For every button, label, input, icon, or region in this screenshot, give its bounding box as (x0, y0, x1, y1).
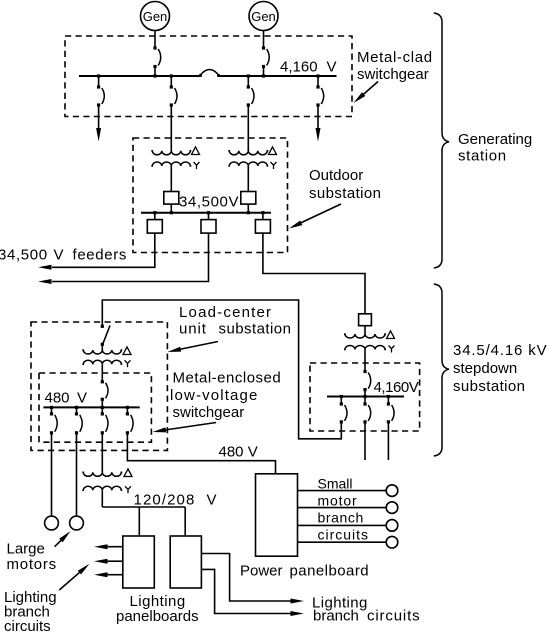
bus 4160V left segment (79, 75, 201, 77)
lighting branch arrow 2 left (94, 559, 123, 564)
transformer T5 wye symbol (125, 486, 131, 493)
incoming breaker stepdown (363, 370, 370, 397)
wire bus to S4 (208, 213, 210, 220)
label Small motor branch circuits (318, 476, 370, 543)
label Metal-enclosed low-voltage switchgear (170, 370, 281, 422)
svg-text:4,160V: 4,160V (374, 379, 419, 396)
480V feeder breaker F4 (126, 407, 133, 434)
wire bus to S3 (154, 213, 156, 220)
transformer T4 delta symbol (123, 347, 131, 355)
feeder 1 arrow (38, 265, 52, 270)
junction dots stepdown bus (340, 395, 390, 398)
brace generating station (434, 13, 449, 268)
bus 480V (43, 406, 139, 408)
small motor circuit 3 (298, 520, 398, 532)
breaker 52-G1 (153, 46, 160, 76)
svg-text:Generating: Generating (458, 131, 532, 148)
callout arrow to outdoor substation (289, 204, 341, 229)
lighting panelboard 1 (123, 536, 155, 588)
wire F4 to power panelboard (480V) (127, 434, 275, 474)
label 480 V switchgear (45, 390, 88, 407)
wire F3 to transformer T5 (101, 434, 103, 472)
small motor circuit 2 (298, 502, 398, 514)
label 4,160 V (280, 59, 337, 76)
brace stepdown substation (434, 284, 449, 456)
wire F2 to motor M2 (76, 434, 78, 516)
svg-text:panelboard: panelboard (290, 563, 370, 580)
svg-text:Small: Small (318, 476, 353, 492)
svg-text:34.5/4.16 kV: 34.5/4.16 kV (453, 342, 547, 359)
label 120/208 V (134, 492, 217, 509)
wire S6 to transformer T3 (364, 326, 366, 334)
lighting panelboard 2 (170, 536, 201, 588)
svg-text:120/208: 120/208 (134, 492, 196, 509)
svg-text:Gen: Gen (143, 9, 168, 24)
bus 120/208V (102, 506, 185, 508)
transformer T5 primary (82, 472, 122, 476)
transformer T2 delta symbol (269, 147, 277, 155)
svg-text:34,500V: 34,500V (179, 194, 239, 211)
svg-text:switchgear: switchgear (357, 66, 429, 83)
transformer T2 secondary (228, 162, 268, 166)
svg-text:Power: Power (240, 563, 283, 580)
svg-text:V: V (77, 390, 87, 407)
svg-text:substation: substation (309, 185, 381, 202)
label 34.5/4.16 kV stepdown substation (453, 342, 547, 395)
wire T5 to 120/208 bus (101, 490, 103, 507)
callout arrow to metal-enclosed switchgear (153, 423, 217, 433)
480V feeder breaker F3 (101, 407, 108, 434)
svg-text:Load-center: Load-center (179, 304, 272, 321)
transformer T1 delta symbol (192, 147, 200, 155)
motor M2 circle (70, 516, 84, 530)
breaker square S3 (147, 220, 162, 234)
svg-text:motor: motor (318, 493, 358, 509)
wire B to transformer T1 (170, 106, 172, 151)
junction dots on 34500 bus (153, 211, 264, 214)
generator G1 (141, 2, 170, 31)
junction dots on 4160V bus (97, 74, 320, 77)
svg-text:34,500: 34,500 (0, 247, 48, 264)
lighting branch out arrow B (291, 611, 305, 616)
svg-text:branch: branch (318, 510, 364, 526)
transformer T2 wye symbol (271, 162, 277, 169)
transformer T3 wye symbol (389, 346, 395, 353)
transformer T4 wye symbol (125, 360, 131, 367)
transformer T3 delta symbol (387, 331, 395, 339)
power panelboard box (256, 474, 298, 556)
wire T1 to breaker square S1 (170, 166, 172, 192)
svg-text:Gen: Gen (251, 9, 276, 24)
label Lighting branch circuits right (312, 595, 420, 625)
breaker square S2 (241, 192, 256, 205)
svg-text:branch: branch (313, 608, 359, 625)
feeder breaker M (363, 397, 370, 424)
breaker square S4 (201, 220, 216, 234)
callout arrow to metal-clad switchgear (354, 82, 379, 104)
svg-text:panelboards: panelboards (116, 608, 199, 625)
bus 4,160V stepdown (327, 396, 404, 398)
svg-text:motors: motors (7, 556, 57, 573)
feeder 1 wire (S3 down-left) (52, 233, 155, 267)
feeder breaker D (316, 76, 323, 107)
fused switch square S6 (359, 314, 372, 326)
svg-text:substation: substation (453, 378, 525, 395)
svg-text:low-voltage: low-voltage (170, 387, 259, 404)
svg-text:Metal-enclosed: Metal-enclosed (173, 370, 282, 387)
feeder breaker L (340, 397, 347, 424)
feeder 2 wire (S4 down-left) (52, 233, 209, 281)
svg-text:unit: unit (179, 321, 207, 338)
bus 4160V right segment (219, 75, 337, 77)
wire T3 to incoming breaker (364, 350, 366, 372)
wire bus to S5 (262, 213, 264, 220)
wire feeder L to load-center (long route) (102, 300, 341, 439)
outdoor substation enclosure (dashed) (133, 138, 288, 253)
label 34,500 V feeders (0, 247, 127, 264)
svg-text:substation: substation (219, 321, 292, 338)
bus 34,500V (141, 212, 271, 214)
small motor circuit 1 (298, 485, 398, 497)
transformer T1 secondary (151, 162, 191, 166)
callout arrow to load-center (168, 342, 219, 353)
label Large motors (7, 541, 57, 574)
main breaker 480V (101, 380, 108, 407)
feeder 2 arrow (38, 279, 52, 284)
wire F1 to motor M1 (51, 434, 53, 516)
load-center enclosure (dashed) (31, 322, 167, 450)
svg-text:Large: Large (7, 541, 45, 558)
bus tie (normally open jumper) (199, 70, 220, 77)
wire T4 to main breaker (101, 364, 103, 381)
feeder breaker N (387, 397, 394, 424)
label Power panelboard (240, 563, 369, 580)
wire Gen1 to breaker (154, 31, 156, 48)
feeder 3 wire (S5 to stepdown substation) (263, 233, 365, 314)
transformer T4 primary (82, 350, 122, 354)
svg-text:circuits: circuits (318, 527, 370, 543)
lighting branch out arrow A (291, 599, 305, 604)
small motor circuit 4 (298, 536, 398, 548)
svg-text:station: station (458, 148, 507, 165)
feeder breaker C (247, 76, 254, 107)
lighting branch arrow 3 left (94, 572, 123, 577)
wire Gen2 to breaker (263, 31, 265, 48)
breaker 52-G2 (262, 46, 269, 76)
breaker square S1 (164, 192, 179, 205)
svg-text:circuits: circuits (367, 608, 420, 625)
label Outdoor substation (309, 167, 381, 202)
svg-text:Outdoor: Outdoor (309, 167, 363, 184)
feeder D arrow down (316, 106, 321, 142)
wire S2 to 34500 bus (247, 204, 249, 213)
wire T2 to breaker square S2 (247, 166, 249, 192)
svg-text:4,160: 4,160 (280, 59, 318, 76)
callout arrow to large motors (55, 531, 71, 547)
transformer T4 secondary (82, 360, 122, 364)
svg-text:480 V: 480 V (219, 444, 258, 461)
480V feeder breaker F1 (50, 407, 57, 434)
callout arrow to lighting branch left (59, 564, 89, 590)
svg-text:feeders: feeders (73, 247, 128, 264)
wire feeder N down (387, 423, 389, 460)
stepdown unit enclosure (dashed) (310, 363, 420, 431)
480V feeder breaker F2 (75, 407, 82, 434)
transformer T3 primary (344, 334, 386, 338)
lighting branch out wire B (201, 569, 291, 613)
junction dots 480V bus (50, 406, 129, 409)
metal-enclosed switchgear enclosure (dashed) (39, 373, 151, 442)
wire feeder M down (364, 423, 366, 460)
svg-text:V: V (54, 247, 64, 264)
transformer T3 secondary (344, 346, 386, 350)
svg-text:stepdown: stepdown (453, 360, 517, 377)
svg-text:V: V (327, 59, 337, 76)
svg-text:circuits: circuits (4, 618, 51, 632)
disconnect switch load-center (101, 325, 110, 350)
transformer T5 secondary (82, 486, 122, 490)
label Metal-clad switchgear (357, 49, 433, 83)
label Lighting panelboards (116, 593, 199, 625)
wire C to transformer T2 (247, 106, 249, 151)
svg-text:480: 480 (45, 390, 70, 407)
svg-text:V: V (207, 492, 217, 509)
label Generating station (458, 131, 532, 165)
transformer T1 wye symbol (194, 162, 200, 169)
label Lighting branch circuits left (4, 589, 57, 632)
metal-clad switchgear enclosure (dashed) (65, 36, 352, 117)
svg-text:Metal-clad: Metal-clad (357, 49, 433, 66)
lighting branch out wire A (201, 554, 291, 602)
lighting branch arrow 1 left (94, 544, 123, 549)
generator G2 (249, 2, 278, 31)
wire S1 to 34500 bus (170, 204, 172, 213)
label Load-center unit substation (179, 304, 291, 338)
transformer T1 primary (151, 151, 191, 155)
transformer T5 delta symbol (124, 469, 132, 477)
transformer T2 primary (228, 151, 268, 155)
wire to lighting panelboard 1 (138, 507, 140, 536)
wire to lighting panelboard 2 (184, 507, 186, 536)
motor M1 circle (45, 516, 59, 530)
svg-text:switchgear: switchgear (173, 404, 245, 421)
feeder breaker A (97, 76, 104, 107)
feeder A arrow down (96, 106, 101, 142)
feeder breaker B (170, 76, 177, 107)
breaker square S5 (255, 220, 270, 234)
